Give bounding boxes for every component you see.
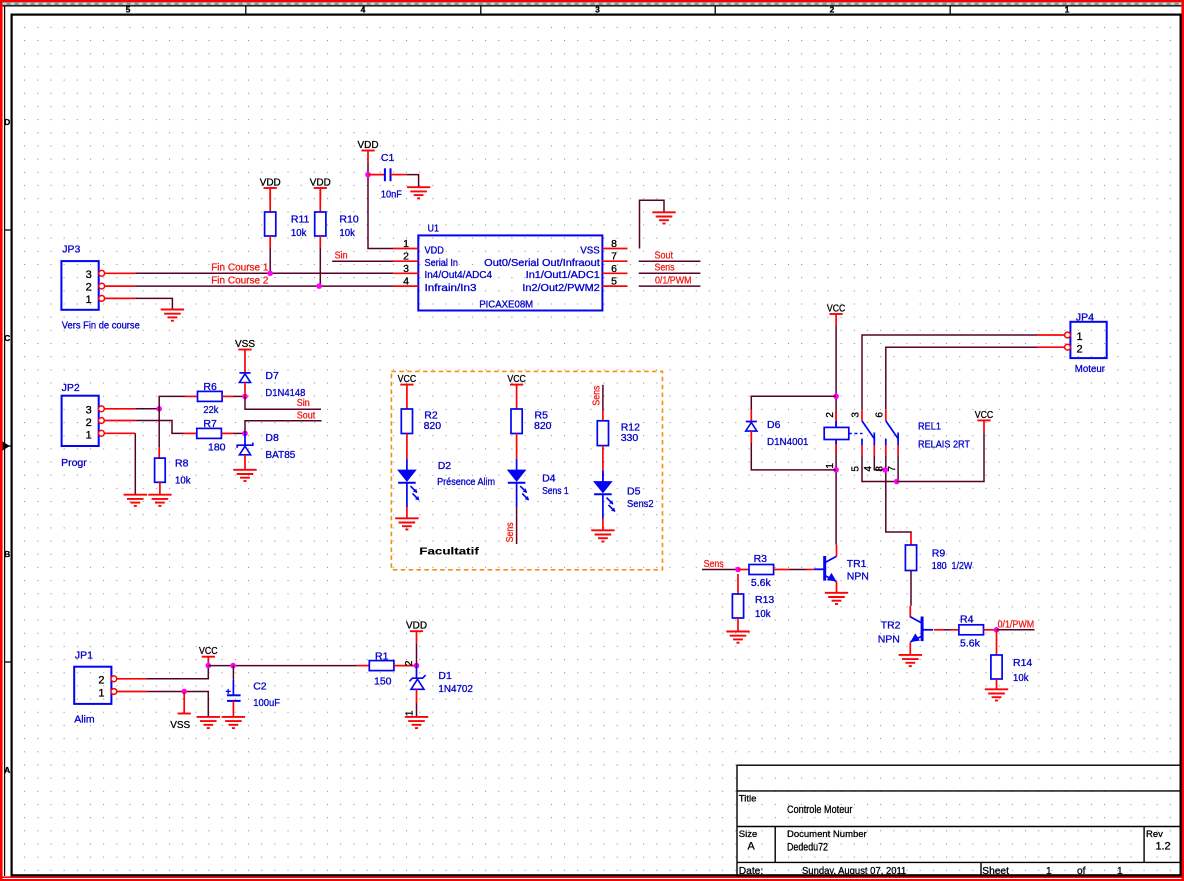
wire U1 pin 8 to ground bbox=[640, 200, 665, 248]
junction C2 bbox=[230, 663, 236, 669]
relay coil top pin bbox=[835, 421, 837, 427]
svg-text:RELAIS 2RT: RELAIS 2RT bbox=[918, 438, 971, 450]
power VCC (JP1) bbox=[199, 645, 218, 666]
svg-text:C2: C2 bbox=[253, 680, 267, 692]
svg-text:D6: D6 bbox=[767, 419, 781, 431]
svg-text:PICAXE08M: PICAXE08M bbox=[479, 299, 533, 311]
svg-text:NPN: NPN bbox=[847, 570, 869, 582]
label R4 bbox=[960, 613, 981, 649]
wire D1 to ground bbox=[416, 704, 418, 717]
R11 bottom lead bbox=[269, 236, 271, 248]
svg-text:B: B bbox=[4, 549, 10, 559]
svg-text:10k: 10k bbox=[175, 475, 191, 487]
row tick separators bbox=[5, 230, 12, 662]
svg-text:10k: 10k bbox=[291, 227, 307, 239]
ground (C1) bbox=[407, 187, 430, 198]
wire net Sens bbox=[639, 272, 701, 274]
svg-text:TR1: TR1 bbox=[847, 558, 867, 570]
svg-text:2: 2 bbox=[1077, 343, 1083, 355]
svg-text:1N4702: 1N4702 bbox=[438, 683, 473, 695]
svg-text:5: 5 bbox=[611, 276, 617, 288]
wire relay pin 5 to pin 7 node bbox=[862, 456, 897, 482]
junction R10/Fin Course 2 bbox=[316, 283, 322, 289]
R13 bottom lead bbox=[737, 618, 739, 632]
junction D8/Sout bbox=[242, 431, 248, 437]
svg-text:TR2: TR2 bbox=[881, 619, 901, 631]
wire net Sin (JP2) bbox=[245, 396, 321, 409]
ground (U1 VSS) bbox=[652, 212, 675, 223]
wire R7 to D8 node bbox=[234, 432, 246, 434]
wire R10 to Fin Course 2 bbox=[319, 248, 321, 286]
label D5 bbox=[627, 486, 654, 510]
svg-text:R13: R13 bbox=[755, 594, 774, 606]
label R9 bbox=[932, 548, 973, 573]
R6 right lead bbox=[222, 395, 233, 397]
svg-text:C: C bbox=[4, 333, 10, 343]
svg-text:1: 1 bbox=[1065, 5, 1070, 15]
wire net Sout (JP2) bbox=[245, 421, 322, 434]
label TR1 bbox=[847, 558, 869, 583]
wire JP1 pin1 to ground bbox=[147, 692, 208, 717]
junction R3/R13 bbox=[735, 567, 741, 573]
svg-text:Sens: Sens bbox=[592, 386, 603, 406]
outer frame line top bbox=[3, 5, 1182, 7]
D7 bottom lead bbox=[244, 383, 246, 397]
svg-text:Rev: Rev bbox=[1146, 829, 1163, 840]
power VDD (D1) bbox=[406, 620, 427, 644]
svg-text:VCC: VCC bbox=[199, 645, 218, 657]
svg-text:Vers Fin de course: Vers Fin de course bbox=[62, 319, 140, 331]
outer frame line left bbox=[4, 6, 6, 876]
svg-text:Fin Course 1: Fin Course 1 bbox=[211, 263, 269, 274]
relay switch B contacts bbox=[886, 439, 898, 446]
label R1 bbox=[374, 651, 392, 688]
resistor R12 bbox=[597, 421, 608, 446]
JP2 pin numbers bbox=[86, 404, 92, 441]
R13 top lead bbox=[737, 574, 739, 594]
R1 right lead bbox=[394, 665, 417, 667]
svg-text:R8: R8 bbox=[175, 458, 189, 470]
resistor R11 bbox=[265, 212, 276, 236]
op-amp U1 PICAXE08M body bbox=[418, 235, 602, 310]
svg-text:1: 1 bbox=[1046, 866, 1052, 877]
wire net Sens (D4) bbox=[516, 507, 518, 544]
power VCC (relay right) bbox=[975, 409, 994, 433]
wire D6 top bbox=[751, 396, 836, 409]
diode D1 1N4702 zener bbox=[409, 675, 425, 689]
LED D4 bbox=[508, 470, 529, 500]
svg-text:330: 330 bbox=[621, 432, 639, 444]
relay pin 3 stub bbox=[861, 409, 863, 421]
junction VCC/JP1 bbox=[206, 663, 212, 669]
JP3 pin stubs bbox=[105, 273, 136, 298]
D2 cathode lead bbox=[406, 483, 408, 507]
resistor R10 lead bbox=[319, 188, 321, 212]
power VDD (R11) bbox=[260, 176, 281, 200]
R2 top lead bbox=[406, 385, 408, 409]
R4 right lead bbox=[984, 629, 997, 631]
svg-text:2: 2 bbox=[825, 412, 836, 418]
svg-text:VCC: VCC bbox=[827, 302, 846, 314]
svg-text:Sunday, August 07, 2011: Sunday, August 07, 2011 bbox=[802, 866, 907, 877]
JP1 pin numbers bbox=[98, 675, 104, 700]
power VSS (D7) bbox=[235, 338, 255, 350]
svg-text:D1N4148: D1N4148 bbox=[265, 387, 305, 399]
power VDD (R10) bbox=[310, 176, 331, 200]
svg-text:Serial In: Serial In bbox=[425, 258, 459, 269]
svg-text:Date:: Date: bbox=[739, 866, 763, 877]
ground (TR2) bbox=[899, 655, 922, 666]
wire net Sens to R3 bbox=[702, 569, 738, 571]
D4 cathode lead bbox=[516, 483, 518, 507]
wire TR2 base to R4 bbox=[944, 629, 951, 631]
svg-text:Alim: Alim bbox=[74, 713, 95, 725]
junction pin5/pin7 bbox=[894, 479, 900, 485]
ground (C2) bbox=[222, 717, 245, 728]
power VCC (relay) bbox=[827, 302, 846, 326]
svg-text:Facultatif: Facultatif bbox=[419, 545, 479, 557]
svg-text:VDD: VDD bbox=[358, 139, 379, 151]
svg-text:2: 2 bbox=[830, 5, 835, 15]
svg-text:Size: Size bbox=[739, 829, 757, 840]
svg-text:2: 2 bbox=[86, 282, 92, 294]
wire VDD to D1 node bbox=[416, 643, 418, 665]
resistor R13 bbox=[732, 594, 743, 618]
svg-text:1: 1 bbox=[98, 687, 104, 699]
svg-text:5.6k: 5.6k bbox=[960, 637, 981, 649]
svg-text:0/1/PWM: 0/1/PWM bbox=[655, 276, 692, 287]
ground (JP2) bbox=[124, 495, 147, 506]
resistor R2 bbox=[401, 409, 412, 434]
R3 right lead bbox=[774, 569, 789, 571]
svg-text:VDD: VDD bbox=[406, 620, 427, 632]
wire net Sens (R12) bbox=[602, 385, 604, 410]
wire junction to R8 bbox=[158, 409, 160, 448]
svg-text:Progr: Progr bbox=[61, 457, 87, 469]
label R6 bbox=[203, 381, 219, 416]
relay switch A contacts bbox=[862, 439, 874, 446]
R1 left lead bbox=[357, 665, 369, 667]
R9 top lead bbox=[910, 533, 912, 545]
D7 top lead bbox=[244, 350, 246, 373]
svg-text:R4: R4 bbox=[960, 613, 974, 625]
resistor R7 bbox=[197, 428, 222, 438]
svg-text:Sens: Sens bbox=[655, 263, 675, 274]
svg-text:JP3: JP3 bbox=[62, 244, 80, 256]
svg-text:820: 820 bbox=[424, 420, 442, 432]
svg-text:Sens2: Sens2 bbox=[627, 498, 654, 510]
svg-text:A: A bbox=[4, 765, 10, 775]
relay pin 5 stub bbox=[861, 445, 863, 455]
D5 anode lead bbox=[602, 471, 604, 482]
label REL1 bbox=[918, 420, 971, 450]
JP3 pin numbers bbox=[86, 269, 92, 306]
svg-text:JP2: JP2 bbox=[62, 382, 80, 394]
U1 left pin stubs bbox=[393, 249, 418, 287]
relay coupling dashed line bbox=[849, 433, 863, 435]
R5 to D4 lead bbox=[516, 434, 518, 460]
power VDD (C1) bbox=[358, 139, 379, 163]
svg-text:JP1: JP1 bbox=[75, 650, 93, 662]
relay pin 8 stub bbox=[885, 445, 887, 455]
capacitor C2 polarized bbox=[226, 680, 241, 701]
wire R3 to TR1 base bbox=[789, 569, 807, 571]
wire relay pin 7 down bbox=[897, 456, 899, 482]
relay REL1 coil bbox=[824, 427, 849, 439]
TR2 collector stub bbox=[909, 606, 911, 618]
junction JP2 node bbox=[156, 406, 162, 412]
svg-text:4: 4 bbox=[403, 276, 409, 288]
U1 right pin stubs bbox=[602, 249, 627, 287]
svg-text:R6: R6 bbox=[203, 381, 217, 393]
connector JP1 body bbox=[74, 667, 111, 704]
relay switch B armature bbox=[886, 421, 898, 439]
diode D7 D1N4148 bbox=[239, 373, 250, 383]
R14 top lead bbox=[996, 630, 998, 655]
resistor R3 bbox=[749, 565, 774, 575]
label R2 bbox=[424, 409, 442, 432]
svg-text:REL1: REL1 bbox=[918, 420, 941, 432]
left edge arrow marker bbox=[3, 442, 10, 451]
svg-text:Sout: Sout bbox=[655, 251, 674, 262]
wire relay pin 3 to JP4 pin 1 bbox=[862, 335, 1037, 409]
D1 top lead bbox=[416, 666, 418, 678]
svg-text:VDD: VDD bbox=[310, 176, 331, 188]
wire C1 to ground bbox=[406, 175, 418, 188]
wire VDD to U1 pin 1 bbox=[368, 163, 393, 249]
svg-text:Sens: Sens bbox=[505, 522, 516, 542]
resistor R5 bbox=[511, 409, 522, 434]
label D6 bbox=[767, 419, 809, 448]
label C1 bbox=[381, 152, 402, 201]
relay pin 4 stub bbox=[873, 445, 875, 455]
svg-text:Document Number: Document Number bbox=[787, 829, 867, 840]
svg-text:Sens 1: Sens 1 bbox=[542, 485, 569, 497]
D4 anode lead bbox=[516, 459, 518, 470]
svg-text:D5: D5 bbox=[627, 486, 641, 498]
wire Fin Course 1 bbox=[135, 272, 393, 274]
wire VCC rail to TR1 collector bbox=[835, 326, 837, 545]
power VSS (JP1) bbox=[170, 714, 191, 732]
junction pin4/pin8 bbox=[882, 467, 888, 473]
svg-text:2: 2 bbox=[86, 417, 92, 429]
D5 cathode lead bbox=[602, 494, 604, 518]
column tick separators bbox=[246, 6, 950, 15]
ground (JP1) bbox=[197, 717, 220, 728]
svg-text:1: 1 bbox=[403, 238, 409, 250]
svg-text:10k: 10k bbox=[755, 608, 771, 620]
svg-text:R10: R10 bbox=[339, 214, 358, 226]
resistor R4 bbox=[959, 625, 984, 635]
svg-text:VDD: VDD bbox=[260, 176, 281, 188]
transistor TR2 NPN bbox=[910, 617, 933, 643]
R5 top lead bbox=[516, 385, 518, 409]
dashed box Facultatif bbox=[391, 371, 662, 569]
svg-text:VSS: VSS bbox=[580, 245, 600, 256]
svg-text:R14: R14 bbox=[1013, 657, 1032, 669]
JP2 pin circles bbox=[99, 406, 105, 436]
R2 to D2 lead bbox=[406, 434, 408, 460]
relay coil top lead bbox=[835, 411, 837, 421]
svg-text:R1: R1 bbox=[375, 651, 389, 663]
JP2 pin stubs bbox=[104, 409, 135, 434]
wire D6 bottom bbox=[751, 443, 836, 470]
wire relay pin 4 to pin 8 node bbox=[874, 456, 885, 470]
TR1 emitter stub bbox=[836, 582, 838, 593]
svg-text:7: 7 bbox=[611, 251, 617, 263]
svg-text:1: 1 bbox=[1077, 331, 1083, 343]
svg-text:5.6k: 5.6k bbox=[751, 577, 772, 589]
transistor TR1 NPN bbox=[814, 556, 837, 582]
svg-text:3: 3 bbox=[595, 5, 600, 15]
svg-text:D: D bbox=[4, 117, 10, 127]
capacitor C1 left lead bbox=[368, 174, 384, 176]
svg-text:Sout: Sout bbox=[297, 410, 316, 421]
svg-text:VSS: VSS bbox=[170, 719, 190, 731]
capacitor C1 right lead bbox=[391, 174, 407, 176]
label R12 bbox=[621, 421, 640, 444]
svg-text:Présence Alim: Présence Alim bbox=[437, 476, 495, 488]
resistor R14 bbox=[991, 655, 1002, 679]
svg-text:VSS: VSS bbox=[235, 338, 255, 350]
svg-text:R7: R7 bbox=[203, 418, 217, 430]
ground (D2) bbox=[395, 518, 418, 529]
relay switch A armature bbox=[862, 421, 874, 439]
U1 pin numbers left bbox=[403, 238, 409, 288]
svg-text:10k: 10k bbox=[339, 227, 355, 239]
capacitor C1 bbox=[385, 168, 391, 181]
JP4 pin circles bbox=[1065, 332, 1071, 350]
ground (TR1) bbox=[825, 593, 848, 604]
svg-text:6: 6 bbox=[874, 412, 885, 418]
svg-text:5: 5 bbox=[126, 5, 131, 15]
relay pin 6 stub bbox=[885, 409, 887, 421]
svg-text:D4: D4 bbox=[542, 473, 556, 485]
svg-text:1: 1 bbox=[405, 710, 416, 716]
svg-text:VDD: VDD bbox=[425, 245, 444, 256]
svg-text:1: 1 bbox=[86, 294, 92, 306]
wire pin 7 node to VCC bbox=[897, 433, 984, 482]
D6 top lead bbox=[750, 410, 752, 422]
svg-text:VCC: VCC bbox=[975, 409, 994, 421]
TR2 emitter stub bbox=[909, 643, 911, 655]
svg-text:U1: U1 bbox=[428, 223, 440, 235]
svg-text:VCC: VCC bbox=[398, 373, 417, 385]
svg-text:Sin: Sin bbox=[297, 398, 310, 409]
wire relay pin 6 to JP4 pin 2 bbox=[886, 347, 1037, 409]
wire main rail to R1 bbox=[208, 665, 357, 667]
wire JP3 pin1 to ground bbox=[135, 298, 172, 309]
row letters bbox=[4, 117, 10, 775]
svg-text:Sin: Sin bbox=[335, 250, 348, 261]
svg-text:3: 3 bbox=[403, 263, 409, 275]
svg-text:820: 820 bbox=[534, 420, 552, 432]
R14 bottom lead bbox=[996, 679, 998, 689]
wire Fin Course 2 bbox=[135, 285, 393, 287]
svg-text:Moteur: Moteur bbox=[1075, 363, 1106, 375]
svg-text:6: 6 bbox=[611, 263, 617, 275]
D6 bottom lead bbox=[750, 431, 752, 443]
VSS lead bbox=[183, 692, 185, 714]
svg-text:2: 2 bbox=[403, 251, 409, 263]
svg-text:Dededu72: Dededu72 bbox=[787, 842, 828, 854]
svg-text:4: 4 bbox=[361, 5, 366, 15]
label R14 bbox=[1013, 657, 1032, 684]
junction D7/Sin bbox=[242, 394, 248, 400]
ground (R8) bbox=[148, 495, 171, 506]
svg-text:NPN: NPN bbox=[878, 634, 900, 646]
U1 pin names bbox=[425, 245, 601, 310]
svg-text:R3: R3 bbox=[754, 553, 768, 565]
svg-text:3: 3 bbox=[86, 269, 92, 281]
ground (JP3) bbox=[161, 310, 184, 321]
svg-text:4: 4 bbox=[863, 466, 874, 472]
svg-text:Sens: Sens bbox=[704, 559, 724, 570]
wire relay pin 8 to R9 bbox=[886, 456, 911, 533]
svg-text:D1N4001: D1N4001 bbox=[767, 436, 809, 448]
connector JP4 body bbox=[1070, 322, 1106, 358]
svg-text:D7: D7 bbox=[265, 370, 279, 382]
svg-text:1: 1 bbox=[86, 430, 92, 442]
svg-text:BAT85: BAT85 bbox=[265, 449, 295, 461]
wire JP2 pin2 to R7 bbox=[135, 421, 184, 434]
label R10 bbox=[339, 214, 358, 239]
svg-text:8: 8 bbox=[611, 238, 617, 250]
svg-text:D2: D2 bbox=[438, 460, 452, 472]
JP4 pin numbers bbox=[1077, 331, 1083, 356]
svg-text:0/1/PWM: 0/1/PWM bbox=[998, 619, 1035, 630]
resistor R11 lead bbox=[269, 188, 271, 212]
connector JP2 body bbox=[62, 396, 99, 446]
svg-text:Infrain/In3: Infrain/In3 bbox=[425, 283, 477, 294]
resistor R6 bbox=[198, 391, 223, 401]
resistor R1 bbox=[369, 661, 394, 671]
wire junction to C2 bbox=[232, 666, 234, 680]
diode D8 BAT85 bbox=[237, 443, 253, 455]
C2 bottom lead bbox=[232, 701, 234, 717]
label C2 bbox=[253, 680, 280, 709]
TR1 base stub bbox=[807, 569, 814, 571]
junction R4/R14 bbox=[994, 627, 1000, 633]
resistor R10 bbox=[315, 212, 326, 236]
label R13 bbox=[755, 594, 774, 620]
ground (D1) bbox=[405, 717, 428, 728]
power VCC (R2) bbox=[398, 373, 417, 385]
svg-text:3: 3 bbox=[851, 412, 862, 418]
svg-text:3: 3 bbox=[86, 404, 92, 416]
LED D2 bbox=[398, 470, 419, 500]
wire R6 to D7 node bbox=[234, 395, 246, 397]
svg-text:D1: D1 bbox=[438, 670, 452, 682]
R8 top lead bbox=[158, 448, 160, 458]
svg-text:1.2: 1.2 bbox=[1156, 841, 1171, 853]
R12 top lead bbox=[602, 410, 604, 421]
svg-text:Out0/Serial Out/Infraout: Out0/Serial Out/Infraout bbox=[484, 258, 600, 269]
svg-text:5: 5 bbox=[851, 466, 862, 472]
D8 top lead bbox=[244, 433, 246, 445]
relay coil bottom pin bbox=[835, 440, 837, 445]
svg-text:1: 1 bbox=[1117, 866, 1123, 877]
label D1 bbox=[438, 670, 473, 695]
label TR2 bbox=[878, 619, 901, 645]
ground (D5) bbox=[591, 530, 614, 541]
label D8 bbox=[265, 432, 295, 461]
svg-text:10k: 10k bbox=[1013, 672, 1029, 684]
D1 bottom lead bbox=[416, 689, 418, 703]
D2 anode lead bbox=[406, 459, 408, 470]
JP3 pin circles bbox=[99, 270, 105, 301]
resistor R9 bbox=[905, 545, 916, 571]
